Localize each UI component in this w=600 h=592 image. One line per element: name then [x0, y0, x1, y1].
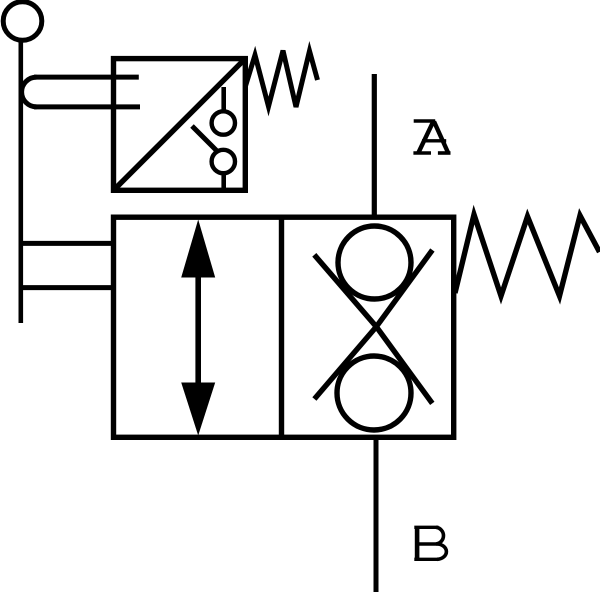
lever link upper wire	[21, 241, 114, 246]
seat X upper-left stroke	[314, 255, 376, 327]
double arrow top head	[181, 220, 215, 278]
solenoid box U1	[114, 59, 246, 191]
seat X lower-left stroke	[314, 327, 376, 399]
port A wire	[372, 74, 377, 217]
switch lower lead wire	[221, 173, 226, 190]
manual override pill bottom wire	[34, 104, 140, 109]
label A	[413, 121, 450, 153]
solenoid box diagonal	[114, 59, 246, 191]
top spring	[246, 51, 318, 108]
label B	[414, 527, 446, 560]
port B wire	[374, 437, 379, 592]
seat X lower-right stroke	[376, 327, 432, 404]
lever knob circle	[3, 2, 42, 41]
lever link lower wire	[21, 285, 114, 290]
manual override pill top wire	[34, 75, 139, 80]
lever shaft wire	[18, 41, 23, 323]
seat X upper-right stroke	[376, 250, 432, 327]
switch upper lead wire	[221, 87, 226, 112]
switch lower contact circle	[212, 150, 235, 173]
seat valve upper ball circle	[338, 226, 411, 299]
valve body rectangle	[114, 217, 454, 437]
manual override pill left cap	[22, 77, 37, 107]
double arrow shaft	[195, 272, 201, 388]
switch blade	[192, 126, 218, 152]
valve body divider	[279, 217, 284, 437]
double arrow bottom head	[181, 383, 215, 436]
right spring	[455, 215, 600, 297]
seat valve lower ball circle	[337, 356, 411, 430]
switch upper contact circle	[212, 111, 235, 134]
